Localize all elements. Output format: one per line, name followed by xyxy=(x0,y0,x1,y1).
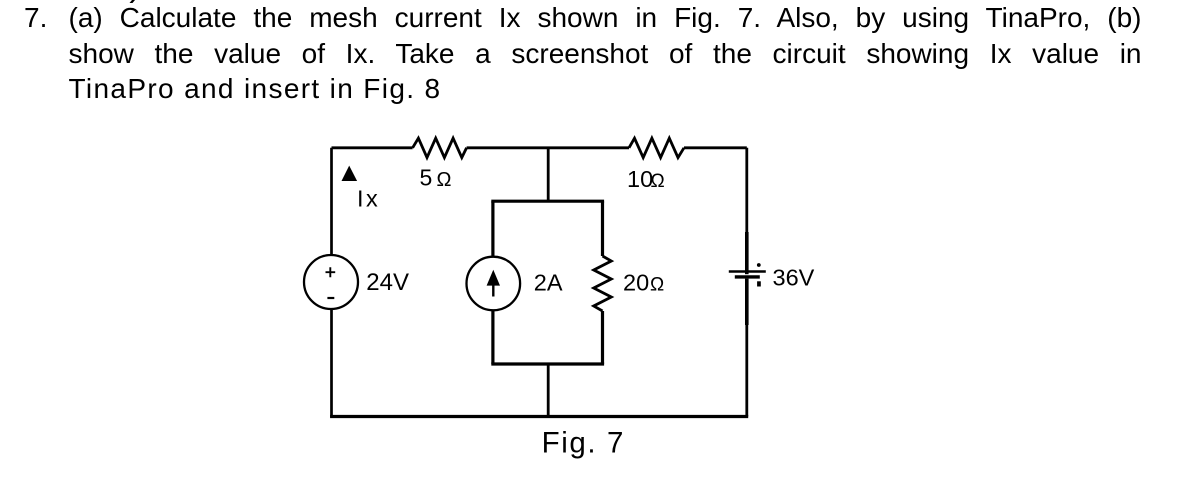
problem statement paragraph xyxy=(69,0,1142,107)
inner box left edge upper xyxy=(491,201,494,256)
problem number 7. xyxy=(24,0,47,36)
I1 arrow shaft xyxy=(492,283,494,297)
I1 arrow head xyxy=(487,270,500,286)
svg-text:24V: 24V xyxy=(366,269,409,296)
inner box left edge lower xyxy=(491,310,494,364)
current arrow Ix (filled triangle) xyxy=(342,166,358,181)
wire bottom xyxy=(330,415,748,418)
battery V2 thick lead lower xyxy=(745,279,749,325)
resistor R2 10ohm zigzag xyxy=(629,138,684,157)
svg-text:Fig. 7: Fig. 7 xyxy=(542,427,625,460)
svg-text:36V: 36V xyxy=(773,265,815,291)
inner box right edge lower xyxy=(601,311,604,364)
svg-text:Ix: Ix xyxy=(357,185,380,211)
page-top artifact mark xyxy=(130,0,136,3)
battery V2 36V short thick plate xyxy=(735,275,760,278)
wire top-middle segment xyxy=(467,146,629,149)
V1 plus sign xyxy=(326,267,336,277)
svg-text:Ω: Ω xyxy=(651,171,665,192)
inner box top edge xyxy=(491,200,604,203)
battery polarity dot xyxy=(757,263,761,267)
battery V2 36V long plate xyxy=(729,270,766,273)
svg-text:10: 10 xyxy=(627,166,653,192)
wire left lower xyxy=(330,309,333,418)
wire right lower xyxy=(745,325,748,417)
svg-text:Ω: Ω xyxy=(437,169,452,191)
wire top-right segment xyxy=(684,146,747,149)
inner box bottom edge xyxy=(491,362,604,365)
wire middle lower xyxy=(547,364,550,417)
wire top-left segment xyxy=(332,146,413,149)
V1 minus sign xyxy=(327,297,334,299)
svg-text:5: 5 xyxy=(420,164,433,190)
wire right upper xyxy=(745,148,748,232)
inner box right edge upper xyxy=(601,201,604,256)
battery V2 thick lead upper xyxy=(745,232,749,274)
svg-text:Ω: Ω xyxy=(650,275,664,296)
battery polarity square tick xyxy=(757,281,761,286)
svg-text:2A: 2A xyxy=(534,269,563,295)
voltage source V1 24V circle xyxy=(304,255,358,309)
current source I1 2A circle xyxy=(467,257,521,311)
svg-text:20: 20 xyxy=(623,270,649,296)
resistor R3 20ohm vertical zigzag xyxy=(594,256,612,311)
wire middle upper (node junction) xyxy=(547,148,550,201)
resistor R1 5ohm zigzag xyxy=(413,138,467,157)
wire left upper xyxy=(330,148,333,256)
